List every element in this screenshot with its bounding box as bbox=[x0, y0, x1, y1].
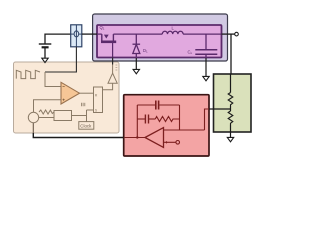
ramp block bbox=[54, 111, 72, 121]
wire battery to ammeter bbox=[45, 34, 71, 44]
oscillator bbox=[28, 112, 38, 122]
wire battery to ground bbox=[44, 47, 46, 58]
wire ramp block to clock node bbox=[72, 115, 87, 117]
power stage outer block (lavender box) bbox=[93, 14, 228, 61]
wire comp mid branch bbox=[137, 118, 155, 120]
wire diode leg to ground bbox=[135, 58, 137, 70]
waveform icon bbox=[16, 70, 40, 78]
wire inverting input bbox=[164, 129, 205, 131]
svg-text:R: R bbox=[95, 94, 98, 98]
resistor R2 (divider bottom) bbox=[228, 111, 233, 125]
wire current-sense down to controller bbox=[45, 47, 76, 72]
wire switch node rail bbox=[113, 33, 162, 35]
minus glyph bbox=[165, 129, 167, 131]
wire feedback tap bbox=[209, 108, 231, 110]
wire inductor to output bbox=[183, 33, 221, 35]
capacitor C1 (top branch) bbox=[156, 101, 159, 110]
svg-text:Co: Co bbox=[188, 49, 193, 55]
svg-text:Clock: Clock bbox=[80, 124, 92, 129]
comparator input glyphs bbox=[63, 87, 65, 101]
ammeter symbol bbox=[71, 25, 82, 47]
power stage inner block (pink box) bbox=[97, 25, 222, 58]
output terminal bbox=[235, 32, 239, 36]
ground (Co) bbox=[203, 76, 209, 80]
wire tap into error amp bbox=[205, 109, 210, 130]
ammeter box (blue) bbox=[71, 25, 82, 47]
wire comp right rail bbox=[179, 105, 181, 130]
node input rail inside power stage bbox=[97, 33, 102, 35]
wire oscillator to comparator bbox=[34, 100, 62, 113]
capacitor Co bbox=[195, 34, 217, 57]
plus glyph bbox=[165, 141, 167, 143]
wire clock vertical bbox=[86, 110, 88, 122]
error amplifier block (red box) bbox=[124, 95, 209, 156]
clock box bbox=[79, 122, 94, 130]
op-amp U2 (error amplifier) bbox=[145, 128, 164, 148]
wire divider top bbox=[230, 74, 232, 93]
wire S input bbox=[87, 109, 94, 111]
gate net label bbox=[116, 65, 118, 70]
transistor Q1 bbox=[101, 34, 116, 42]
svg-text:Q1: Q1 bbox=[100, 25, 105, 31]
ground (divider) bbox=[227, 137, 233, 141]
wire oscillator to ramp block bbox=[39, 117, 54, 119]
capacitor C2 (mid branch) bbox=[145, 115, 148, 124]
wire ammeter to power stage bbox=[82, 33, 97, 35]
diode D1 bbox=[133, 34, 141, 57]
wire comp top branch bbox=[137, 104, 179, 106]
wire comp network left rail bbox=[136, 105, 138, 138]
driver buffer bbox=[108, 73, 117, 83]
wire error amp output to oscillator bbox=[33, 133, 123, 138]
wire sense to comparator bbox=[45, 72, 61, 87]
wire comparator to latch bbox=[80, 92, 94, 94]
ground (battery) bbox=[42, 58, 48, 62]
wire Q1 gate drop bbox=[112, 43, 114, 58]
inductor L bbox=[162, 31, 183, 34]
resistor R1 (divider top) bbox=[228, 93, 233, 107]
wire into controller box bbox=[32, 123, 34, 133]
resistor (ramp) bbox=[39, 110, 54, 114]
controller block (orange box) bbox=[14, 62, 120, 133]
wire latch to driver bbox=[103, 83, 113, 90]
feedback divider block (green box) bbox=[214, 74, 252, 132]
wire gate through box gap bbox=[112, 58, 114, 65]
comparator U3 bbox=[61, 82, 80, 104]
reference terminal bbox=[176, 141, 180, 145]
wire non-inverting input to reference bbox=[164, 141, 176, 143]
battery V1 bbox=[39, 44, 52, 47]
ground (diode) bbox=[133, 69, 139, 73]
clock pulses icon bbox=[81, 103, 84, 106]
wire output to terminal bbox=[222, 33, 235, 35]
wire op-amp output bbox=[124, 137, 145, 139]
svg-text:D1: D1 bbox=[143, 48, 148, 54]
wire divider bottom bbox=[230, 125, 232, 138]
junction (output/network) bbox=[136, 136, 138, 138]
wire driver to gate bbox=[112, 65, 114, 74]
wire output down to divider bbox=[230, 34, 232, 74]
latch U4 bbox=[94, 87, 103, 113]
wire divider mid bbox=[230, 106, 232, 111]
wire Co leg to ground bbox=[205, 58, 207, 77]
resistor R3 (mid branch) bbox=[155, 117, 179, 122]
